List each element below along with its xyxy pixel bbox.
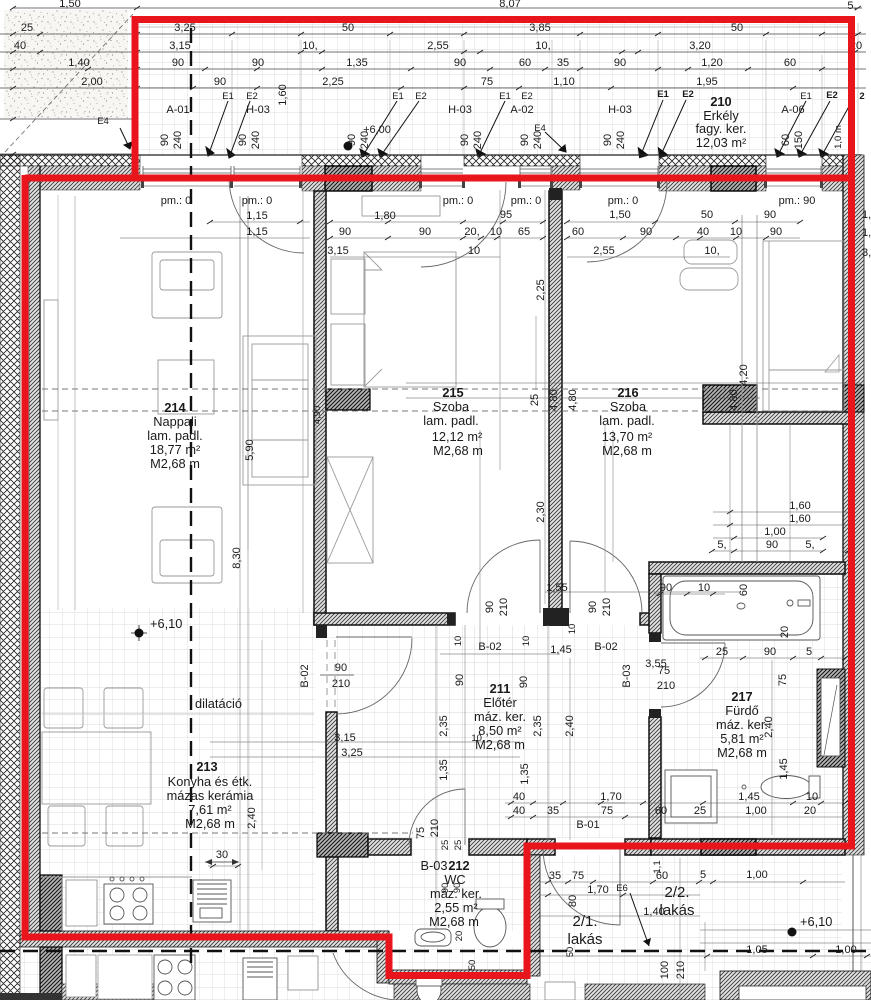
svg-text:5,90: 5,90 [244, 439, 256, 460]
kitchen bottom wall band [20, 931, 389, 947]
bath tile grid [649, 574, 844, 838]
svg-text:1,00: 1,00 [764, 526, 785, 538]
room label 216 [599, 385, 654, 458]
svg-text:90: 90 [602, 134, 614, 146]
dashed axis horizontal 1 [42, 388, 843, 390]
svg-text:240: 240 [250, 131, 262, 149]
lower unit counter cabinet [98, 955, 152, 999]
svg-text:60: 60 [572, 226, 584, 238]
level benchmark dot balcony [344, 142, 353, 151]
door B-02 kitchen leaf+arc [336, 636, 412, 638]
top dim row texts [14, 0, 862, 88]
svg-text:+6,10: +6,10 [150, 616, 182, 631]
svg-text:18,77 m²: 18,77 m² [150, 442, 201, 457]
svg-text:Konyha és étk.: Konyha és étk. [168, 774, 253, 789]
balcony door arc room 214 [229, 178, 304, 253]
top wall inner hatch wings [28, 166, 862, 191]
svg-text:60: 60 [780, 134, 792, 146]
V1 door posts at B-02 kitchen door [316, 625, 327, 638]
lower unit small sink right of jog [545, 982, 575, 1000]
top wall dark piers [325, 166, 372, 191]
door B-02 room 215 leaf+arc [539, 540, 541, 613]
svg-text:2,35: 2,35 [532, 715, 544, 736]
svg-text:E1: E1 [499, 91, 511, 102]
bottom right bench [739, 986, 866, 1000]
svg-text:25: 25 [440, 840, 451, 851]
door swing arcs [229, 178, 725, 1000]
svg-text:1,60: 1,60 [277, 84, 289, 105]
svg-text:A-01: A-01 [166, 104, 189, 116]
svg-text:1,35: 1,35 [438, 759, 450, 780]
svg-text:E4: E4 [97, 116, 109, 127]
room 214 armchair top [152, 252, 222, 318]
svg-text:pm.: 0: pm.: 0 [608, 195, 639, 207]
svg-text:25: 25 [21, 22, 33, 34]
svg-text:210: 210 [657, 680, 675, 692]
svg-text:25: 25 [453, 840, 464, 851]
benchmark dot bottom right [788, 928, 797, 937]
svg-text:3,25: 3,25 [174, 22, 195, 34]
room 216 bed [763, 241, 844, 411]
interior dimension chain lines [58, 190, 871, 1000]
svg-text:50: 50 [701, 209, 713, 221]
svg-text:5,81 m²: 5,81 m² [720, 731, 764, 746]
interior wall V1 between 214 and 215 [314, 191, 326, 625]
svg-text:1,60: 1,60 [789, 513, 810, 525]
bath top wall H3 [649, 562, 845, 574]
room label 215 [423, 385, 483, 458]
svg-text:216: 216 [617, 385, 638, 400]
room 215 bed [364, 252, 456, 387]
svg-text:1,45: 1,45 [738, 791, 759, 803]
svg-text:90: 90 [454, 674, 466, 686]
svg-text:20: 20 [804, 805, 816, 817]
svg-text:211: 211 [490, 681, 511, 696]
svg-text:B-03: B-03 [420, 858, 447, 873]
svg-text:2,00: 2,00 [81, 76, 102, 88]
svg-text:pm.: 0: pm.: 0 [242, 195, 273, 207]
svg-text:10: 10 [806, 791, 818, 803]
svg-text:fagy. ker.: fagy. ker. [696, 121, 747, 136]
balcony room label 210 [696, 94, 747, 150]
svg-text:10: 10 [698, 582, 710, 594]
svg-text:90: 90 [770, 226, 782, 238]
svg-text:10: 10 [453, 636, 464, 647]
svg-text:lakás: lakás [659, 902, 694, 919]
V2 top post [549, 188, 562, 200]
window sill lines under openings [143, 185, 821, 187]
bath left wall V3 lower [649, 717, 661, 838]
kitchen stove [104, 884, 153, 924]
svg-text:90: 90 [440, 883, 451, 894]
svg-text:215: 215 [442, 385, 463, 400]
svg-text:3,15: 3,15 [169, 40, 190, 52]
svg-text:8,07: 8,07 [499, 0, 520, 10]
svg-text:1,70: 1,70 [600, 791, 621, 803]
svg-text:90: 90 [518, 676, 530, 688]
kitchen stove knobs [110, 877, 114, 881]
tick marks on top chains [10, 6, 861, 156]
svg-text:H-03: H-03 [246, 104, 270, 116]
svg-text:100: 100 [659, 961, 671, 979]
door B-03 wc leaf+arc [464, 789, 466, 845]
svg-text:Fürdő: Fürdő [725, 703, 758, 718]
svg-text:1,00: 1,00 [835, 944, 856, 956]
wc corridor tile grid [329, 626, 527, 931]
svg-text:2,25: 2,25 [322, 76, 343, 88]
hall and bath dim texts [216, 500, 857, 956]
svg-text:dilatáció: dilatáció [195, 696, 242, 711]
svg-text:240: 240 [359, 131, 371, 149]
svg-text:210: 210 [710, 94, 731, 109]
room label 212 wc [420, 858, 481, 929]
svg-text:214: 214 [164, 400, 186, 415]
kitchen tile grid [41, 608, 315, 931]
lower unit dishwasher [288, 956, 318, 990]
svg-text:4,80: 4,80 [548, 389, 560, 410]
svg-text:210: 210 [332, 678, 350, 690]
svg-text:máz. ker.: máz. ker. [716, 717, 768, 732]
svg-text:90: 90 [459, 134, 471, 146]
bath door post upper [649, 633, 661, 642]
bath left wall V3 upper [649, 574, 661, 633]
svg-text:3,15: 3,15 [334, 732, 355, 744]
svg-text:1,40: 1,40 [68, 57, 89, 69]
svg-text:12,12 m²: 12,12 m² [432, 429, 483, 444]
svg-text:90: 90 [159, 134, 171, 146]
dashed expansion joint vertical [190, 28, 192, 963]
right wall inner face line [842, 155, 844, 846]
svg-text:M2,68 m: M2,68 m [717, 745, 767, 760]
svg-text:90: 90 [640, 226, 652, 238]
diagonal joint dashed line top-left [5, 14, 133, 152]
WC corner block [317, 833, 368, 857]
svg-text:1,45: 1,45 [550, 644, 571, 656]
kitchen dining table [42, 732, 151, 804]
bathroom tub [663, 576, 820, 640]
svg-text:3,: 3, [862, 247, 871, 259]
svg-text:7,61 m²: 7,61 m² [188, 802, 232, 817]
svg-text:90: 90 [614, 57, 626, 69]
svg-text:40: 40 [513, 791, 525, 803]
svg-text:10,: 10, [535, 40, 550, 52]
svg-text:212: 212 [448, 858, 469, 873]
kitchen fridge [66, 880, 97, 926]
bathroom shower dark enclosure [817, 669, 845, 767]
svg-text:B-02: B-02 [594, 641, 617, 653]
svg-text:pm.: 0: pm.: 0 [443, 195, 474, 207]
interior wall V1 pier dark block [326, 389, 370, 410]
svg-text:10: 10 [730, 226, 742, 238]
balcony door arc room 215 [421, 182, 506, 267]
svg-text:90: 90 [237, 134, 249, 146]
red balcony rectangle [135, 16, 852, 23]
bottom strip tile grid [20, 947, 871, 1000]
svg-text:2,55: 2,55 [593, 245, 614, 257]
room 215 wardrobe [327, 457, 373, 563]
svg-text:pm.: 90: pm.: 90 [779, 195, 816, 207]
left wall inner face line [39, 166, 41, 931]
svg-text:2,40: 2,40 [246, 807, 258, 828]
svg-text:E2: E2 [246, 91, 258, 102]
svg-text:1,70: 1,70 [587, 884, 608, 896]
svg-text:5: 5 [700, 869, 706, 881]
svg-text:máz. ker.: máz. ker. [474, 709, 526, 724]
svg-text:90: 90 [766, 539, 778, 551]
svg-text:E1: E1 [222, 91, 234, 102]
svg-text:1,55: 1,55 [546, 582, 567, 594]
svg-text:90: 90 [764, 646, 776, 658]
svg-text:50: 50 [467, 960, 478, 971]
svg-text:25: 25 [694, 805, 706, 817]
bottom-left unit black wall lower [40, 947, 62, 1000]
door B-02 room 216 leaf+arc [569, 541, 571, 613]
svg-text:1,35: 1,35 [519, 763, 531, 784]
H2 dark pier [703, 385, 757, 412]
svg-text:40: 40 [697, 226, 709, 238]
svg-text:2/2.: 2/2. [664, 884, 689, 901]
svg-text:1,: 1, [862, 227, 871, 239]
red inner top boundary [25, 175, 852, 182]
dashed axis horizontal 2 [42, 410, 843, 412]
svg-text:240: 240 [172, 131, 184, 149]
svg-text:10: 10 [567, 624, 578, 635]
right exterior wall hatch [843, 155, 864, 855]
svg-text:1,50: 1,50 [609, 209, 630, 221]
svg-text:75: 75 [572, 870, 584, 882]
svg-text:240: 240 [532, 131, 544, 149]
svg-text:90: 90 [519, 134, 531, 146]
svg-text:E2: E2 [682, 89, 694, 100]
E6 leader arrow bottom [630, 893, 649, 946]
svg-text:1,60: 1,60 [789, 500, 810, 512]
lower unit toilet below jog [417, 976, 441, 1000]
svg-text:E1: E1 [392, 91, 404, 102]
room 214 side table [158, 360, 214, 414]
svg-text:Szoba: Szoba [610, 399, 647, 414]
svg-text:pm.: 0: pm.: 0 [161, 195, 192, 207]
svg-text:2,35: 2,35 [438, 715, 450, 736]
WC door jamb right [469, 839, 527, 855]
svg-text:Előtér: Előtér [483, 695, 517, 710]
svg-text:B-03: B-03 [621, 664, 633, 687]
svg-text:3,25: 3,25 [341, 747, 362, 759]
room 214 sofa [243, 336, 316, 485]
svg-text:1,95: 1,95 [696, 76, 717, 88]
red right vertical [848, 16, 855, 846]
balcony parapet line [137, 26, 848, 28]
svg-text:10,: 10, [704, 245, 719, 257]
bathroom washbasin [737, 603, 745, 609]
svg-text:1,40: 1,40 [643, 906, 664, 918]
svg-text:2,40: 2,40 [763, 716, 775, 737]
room 215 desk at top [362, 196, 440, 216]
svg-text:4,80: 4,80 [567, 389, 579, 410]
svg-text:12,03 m²: 12,03 m² [696, 135, 747, 150]
svg-text:E2: E2 [415, 91, 427, 102]
svg-text:20: 20 [454, 931, 465, 942]
right wall dark pier at dashed axis [843, 385, 864, 412]
concrete stipple top-left [4, 10, 128, 118]
svg-text:90: 90 [252, 57, 264, 69]
bottom center lower-unit wall pieces [585, 984, 705, 1000]
svg-text:10: 10 [490, 226, 502, 238]
entry wall right of jog with B-01 opening [527, 839, 555, 855]
svg-text:Nappali: Nappali [153, 414, 196, 429]
svg-text:1,20: 1,20 [701, 57, 722, 69]
svg-text:8,30: 8,30 [231, 547, 243, 568]
bottom-left floor edge [0, 993, 62, 1000]
room 214 sideboard vertical [239, 196, 241, 550]
svg-text:H-03: H-03 [608, 104, 632, 116]
svg-text:lam. padl.: lam. padl. [423, 413, 478, 428]
bath door post lower [649, 709, 661, 718]
tick marks interior [207, 220, 870, 958]
svg-text:13,70 m²: 13,70 m² [602, 429, 653, 444]
svg-text:1,0 m: 1,0 m [833, 125, 844, 149]
bottom right stairwell grid [540, 855, 842, 947]
svg-text:3,85: 3,85 [529, 22, 550, 34]
svg-text:90: 90 [346, 134, 358, 146]
svg-text:5: 5 [806, 646, 812, 658]
svg-text:5,: 5, [847, 0, 856, 12]
svg-text:75: 75 [415, 827, 427, 839]
top-left outside dim texts [97, 116, 109, 127]
svg-text:90: 90 [339, 226, 351, 238]
balcony tile grid [137, 23, 849, 155]
svg-text:2,55: 2,55 [427, 40, 448, 52]
wall right of red jog vertical [527, 855, 540, 976]
room 216 dim extension lines [741, 215, 743, 562]
svg-text:213: 213 [196, 759, 217, 774]
svg-text:5,: 5, [805, 539, 814, 551]
svg-text:8,50 m²: 8,50 m² [478, 723, 522, 738]
svg-text:lam. padl.: lam. padl. [147, 428, 202, 443]
svg-text:60: 60 [655, 805, 667, 817]
svg-text:75: 75 [601, 805, 613, 817]
svg-text:150: 150 [793, 131, 805, 149]
svg-text:M2,68 m: M2,68 m [429, 914, 479, 929]
svg-text:3,15: 3,15 [327, 245, 348, 257]
svg-text:90: 90 [454, 57, 466, 69]
left exterior wall inner hatch [29, 178, 40, 931]
kitchen/hall wall V1 lower part [326, 712, 337, 833]
svg-text:95: 95 [500, 209, 512, 221]
room top dim rows [246, 209, 782, 257]
svg-text:50: 50 [565, 947, 576, 958]
svg-text:20,: 20, [464, 226, 479, 238]
svg-text:217: 217 [731, 689, 752, 704]
top exterior wall: face line [0, 154, 862, 156]
lower unit washbasin left [66, 955, 96, 997]
svg-text:2,25: 2,25 [535, 279, 547, 300]
svg-text:1,15: 1,15 [246, 210, 267, 222]
jog wall left of red vertical [377, 931, 389, 983]
room 214 armchair bottom [152, 507, 222, 583]
svg-text:pm.: 0: pm.: 0 [511, 195, 542, 207]
WC top wall [368, 839, 411, 855]
svg-text:1,05: 1,05 [746, 944, 767, 956]
svg-text:90: 90 [214, 76, 226, 88]
svg-text:210: 210 [498, 598, 510, 616]
svg-text:Szoba: Szoba [433, 399, 470, 414]
svg-text:240: 240 [472, 131, 484, 149]
rotated dims rooms [231, 279, 791, 979]
svg-text:10,: 10, [471, 733, 484, 744]
svg-text:1,00: 1,00 [746, 869, 767, 881]
room label 217 bath [716, 689, 768, 760]
svg-text:40: 40 [513, 805, 525, 817]
svg-text:1,35: 1,35 [346, 57, 367, 69]
wc 212 washbasin [415, 929, 451, 946]
svg-text:H-03: H-03 [448, 104, 472, 116]
bathroom wc toilet [761, 776, 811, 799]
svg-text:35: 35 [557, 57, 569, 69]
wc 212 toilet [474, 907, 506, 947]
balcony door arc room 216 [587, 182, 667, 262]
door/window labels row [166, 89, 864, 136]
svg-text:2,30: 2,30 [535, 501, 547, 522]
svg-text:90: 90 [419, 226, 431, 238]
svg-text:B-01: B-01 [576, 819, 599, 831]
room label 214 [147, 400, 202, 471]
svg-text:20: 20 [779, 626, 791, 638]
leader arrows to wall elements [120, 100, 852, 158]
svg-text:1,15: 1,15 [246, 226, 267, 238]
svg-text:E1: E1 [800, 91, 812, 102]
svg-text:210: 210 [601, 598, 613, 616]
svg-text:4,20: 4,20 [738, 364, 750, 385]
svg-text:1,10: 1,10 [553, 76, 574, 88]
svg-text:E2: E2 [521, 91, 533, 102]
svg-text:35: 35 [549, 870, 561, 882]
svg-text:75: 75 [658, 665, 670, 677]
svg-text:210: 210 [675, 961, 687, 979]
bottom-left unit black wall upper [40, 875, 62, 931]
kitchen counter edge [41, 876, 192, 878]
svg-text:1,80: 1,80 [374, 210, 395, 222]
svg-text:M2,68 m: M2,68 m [185, 816, 235, 831]
left exterior wall crosshatch band [0, 155, 20, 1000]
top wall crosshatch bands [0, 155, 862, 166]
bath bottom wall [651, 839, 845, 855]
lower unit stove [154, 955, 195, 1000]
right edge clipped texts [862, 209, 871, 259]
pm level labels row [161, 195, 816, 207]
svg-text:E6: E6 [616, 883, 628, 894]
svg-text:1,00: 1,00 [745, 805, 766, 817]
svg-text:80: 80 [567, 895, 579, 907]
svg-text:90: 90 [660, 582, 672, 594]
bathroom washer [665, 770, 717, 823]
room 216 armchair [684, 240, 737, 264]
svg-text:25: 25 [716, 646, 728, 658]
svg-text:65: 65 [518, 226, 530, 238]
svg-text:M2,68 m: M2,68 m [433, 443, 483, 458]
door B-03 bath leaf+arc [661, 642, 725, 644]
kitchen sink [193, 880, 231, 922]
neighbour unit door arc bottom-left area [333, 953, 404, 1000]
neighbour unit labels [567, 884, 694, 948]
svg-text:1,: 1, [862, 209, 871, 221]
svg-text:60: 60 [784, 57, 796, 69]
svg-text:50: 50 [731, 22, 743, 34]
svg-text:10,: 10, [302, 40, 317, 52]
svg-text:40: 40 [14, 40, 26, 52]
jog bottom wall under WC [389, 970, 527, 984]
room 214 tv bench on left wall [44, 300, 58, 420]
svg-text:25: 25 [529, 394, 541, 406]
